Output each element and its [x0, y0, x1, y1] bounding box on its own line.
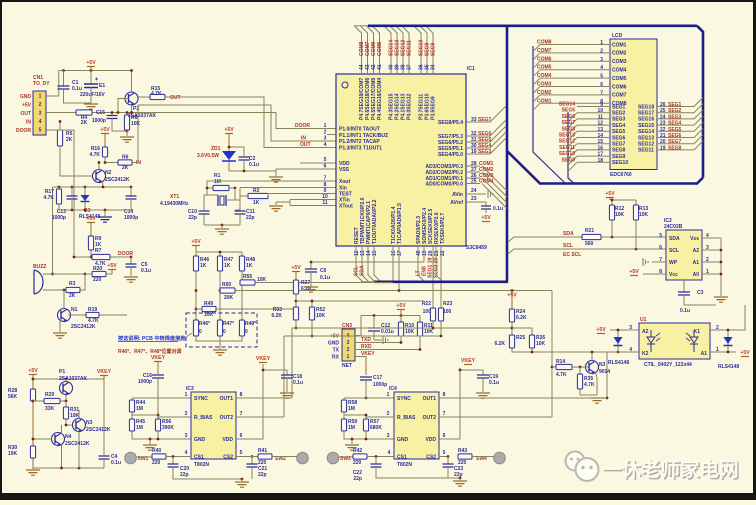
svg-text:0.1u: 0.1u [293, 380, 303, 386]
resistor R47* (0 ohm) [217, 320, 222, 336]
svg-text:SEG11: SEG11 [407, 40, 413, 56]
svg-text:4.7K: 4.7K [88, 318, 99, 324]
wire CN1 pin1 to +5V rail [46, 71, 59, 97]
net label TXD wire [355, 342, 401, 344]
resistor R55 [240, 280, 255, 285]
capacitor C3 [683, 280, 685, 292]
svg-text:K1: K1 [694, 329, 701, 335]
resistor R3 [66, 287, 80, 292]
svg-text:14: 14 [597, 133, 603, 139]
svg-text:R47*: R47* [223, 321, 234, 327]
thin lead-in top bus [354, 25, 368, 27]
svg-text:1M: 1M [136, 406, 143, 412]
svg-text:SEG2: SEG2 [668, 108, 682, 114]
resistor R31 [65, 401, 67, 407]
LCD right SEG pin rows [657, 98, 703, 107]
resistor R14 [552, 366, 556, 368]
svg-text:22p: 22p [180, 472, 189, 478]
svg-text:9014: 9014 [599, 369, 610, 375]
wire R46 col down [195, 271, 197, 320]
svg-text:R43: R43 [458, 448, 467, 454]
U1 inner LED left [647, 330, 655, 352]
svg-text:SEG6: SEG6 [668, 133, 682, 139]
resistor R26 [529, 335, 534, 348]
svg-text:C6: C6 [320, 268, 327, 274]
svg-text:3: 3 [600, 57, 603, 63]
resistor R4 [76, 110, 92, 115]
svg-text:2K: 2K [81, 120, 88, 126]
svg-text:VDD: VDD [425, 437, 436, 443]
wire lower rail y=187 [53, 186, 132, 188]
net SDA wire [508, 237, 582, 242]
svg-text:N4: N4 [65, 434, 72, 440]
svg-text:TXSEK0/P2.7: TXSEK0/P2.7 [440, 213, 446, 244]
capacitor C19 [460, 370, 483, 375]
svg-text:15: 15 [597, 139, 603, 145]
svg-text:10K: 10K [615, 212, 625, 218]
resistor R58 [341, 400, 346, 412]
pin6 VSS wire [276, 168, 336, 170]
svg-text:SEG11: SEG11 [638, 148, 654, 154]
svg-text:R46*、R47*、R48*位置对调: R46*、R47*、R48*位置对调 [118, 348, 181, 355]
svg-text:5: 5 [324, 157, 327, 163]
svg-text:U1: U1 [640, 317, 647, 323]
resistor R24 [509, 309, 514, 322]
resistor R47 [217, 256, 222, 271]
svg-text:56K: 56K [8, 394, 18, 400]
svg-text:R2: R2 [253, 188, 260, 194]
svg-text:BUZZ: BUZZ [33, 264, 46, 270]
resistor R6 [105, 162, 118, 164]
svg-text:1000p: 1000p [124, 215, 138, 221]
svg-text:R25: R25 [516, 335, 525, 341]
capacitor E1 electrolytic [90, 71, 92, 85]
svg-text:AD0/COM0/P0.0: AD0/COM0/P0.0 [425, 181, 463, 187]
svg-text:SEG3: SEG3 [612, 117, 626, 123]
wire IC3 SYNC row [132, 397, 191, 399]
wire pin22 column through R23 [440, 246, 442, 252]
ground under E1 [84, 104, 98, 109]
svg-text:22p: 22p [258, 472, 267, 478]
svg-text:R49: R49 [204, 301, 213, 307]
svg-text:COM5: COM5 [377, 41, 383, 56]
wire OUT row from CN1 pin3 (y=112.5) [46, 112, 76, 114]
svg-text:4.7K: 4.7K [43, 195, 54, 201]
wire R48 col down [241, 271, 243, 320]
capacitor C1 [63, 71, 65, 87]
wire IC4 OUT2 [439, 416, 552, 418]
svg-text:2K: 2K [122, 165, 129, 171]
wire R50 row to pin17 col [235, 290, 399, 292]
svg-text:100: 100 [443, 309, 452, 315]
svg-text:2SC2412K: 2SC2412K [86, 427, 111, 433]
svg-text:22p: 22p [454, 472, 463, 478]
resistor R46 [193, 256, 198, 271]
svg-text:4.7K: 4.7K [89, 152, 100, 158]
svg-text:SYNC: SYNC [194, 396, 208, 402]
svg-text:R7: R7 [95, 248, 102, 254]
capacitor C4 [99, 456, 110, 459]
svg-text:SEG7: SEG7 [668, 139, 682, 145]
wire U1 pin2 right riser [710, 305, 745, 330]
svg-text:SEG8: SEG8 [562, 126, 576, 132]
wire IC4 GND row [344, 431, 394, 439]
svg-text:SEG15: SEG15 [638, 123, 654, 129]
resistor R57 [363, 419, 368, 431]
wire bottom rail y=210 [59, 209, 131, 211]
wire R10 bottom to TXD [400, 336, 402, 343]
svg-text:SEG4: SEG4 [668, 121, 682, 127]
svg-text:+5V: +5V [481, 215, 491, 221]
svg-text:+5V: +5V [396, 303, 406, 309]
svg-text:R46*: R46* [199, 321, 210, 327]
svg-text:SEG10: SEG10 [559, 151, 575, 157]
thick bus left vertical [506, 25, 509, 282]
resistor R49 [202, 306, 216, 311]
capacitor C12 [373, 316, 375, 329]
svg-text:9: 9 [600, 102, 603, 108]
svg-text:COM5: COM5 [537, 65, 552, 71]
svg-text:NET: NET [342, 363, 352, 369]
svg-text:6.2K: 6.2K [516, 315, 527, 321]
svg-text:SEG9: SEG9 [612, 154, 626, 160]
svg-text:SEG6: SEG6 [562, 114, 576, 120]
net label VKEY wire [355, 357, 366, 376]
svg-text:3: 3 [324, 136, 327, 142]
wire left rail down to buzzer row [52, 187, 54, 274]
svg-text:20: 20 [660, 139, 666, 145]
svg-text:1M: 1M [214, 179, 221, 185]
resistor R48* (0 ohm) [239, 320, 244, 336]
ground under R8 [126, 130, 128, 136]
wire R22 bottom to OUT1 link row [432, 321, 434, 328]
svg-text:2: 2 [347, 347, 350, 353]
wire OUT1 link row [296, 327, 512, 329]
svg-text:2: 2 [39, 102, 42, 108]
wire R50 row extension to keypad net [399, 290, 552, 292]
wire +5V rail over CN3 [361, 315, 420, 317]
svg-text:1: 1 [39, 94, 42, 100]
svg-text:OUT1: OUT1 [423, 396, 437, 402]
wire CS1 row [166, 456, 191, 458]
wire R49 row right [216, 308, 296, 310]
svg-text:SEG11: SEG11 [559, 145, 575, 151]
svg-text:SEG1: SEG1 [668, 102, 682, 108]
svg-text:LCD: LCD [612, 33, 623, 39]
svg-text:AVin: AVin [452, 192, 463, 198]
svg-text:RLS4148: RLS4148 [608, 360, 629, 366]
ground under N5 [580, 394, 597, 396]
diode D3 RLS4148 [84, 187, 86, 210]
ground VSS [275, 169, 277, 176]
svg-text:+5V: +5V [224, 127, 234, 133]
wire R11 bottom to RXD [419, 336, 421, 350]
svg-text:SEG7: SEG7 [562, 120, 576, 126]
resistor R33 [293, 307, 298, 320]
pin23 AVref wire capacitor C7 [466, 202, 486, 206]
svg-text:1: 1 [387, 392, 390, 398]
wire riser x607 to IC4 OUT1 [606, 352, 608, 398]
IC IC2 24C02B box [666, 230, 702, 280]
svg-text:R55: R55 [243, 274, 252, 280]
svg-text:Vss: Vss [690, 236, 699, 242]
svg-text:VSS: VSS [339, 167, 350, 173]
inner collector line for COM diagonals [533, 46, 565, 183]
svg-text:按这说明: PCB 中转焊盘接地: 按这说明: PCB 中转焊盘接地 [118, 334, 186, 342]
svg-text:37: 37 [407, 64, 413, 70]
svg-text:7: 7 [240, 411, 243, 417]
svg-text:SEG4/P5.0: SEG4/P5.0 [438, 152, 463, 158]
resistor R46* (0 ohm) [193, 320, 198, 336]
thick bus corner top right [697, 26, 703, 178]
svg-text:COM3: COM3 [537, 82, 552, 88]
svg-text:SEG8/P5.4: SEG8/P5.4 [438, 120, 463, 126]
signal ground C12 [383, 336, 388, 344]
svg-text:17: 17 [597, 152, 603, 158]
svg-text:0.01u: 0.01u [381, 329, 394, 335]
svg-text:SCL: SCL [563, 243, 573, 249]
svg-text:SEG3: SEG3 [478, 149, 492, 155]
resistor R27 [293, 280, 298, 294]
resistor R41 [236, 456, 258, 458]
svg-text:1000p: 1000p [52, 215, 66, 221]
svg-text:18: 18 [597, 158, 603, 164]
svg-text:1K: 1K [253, 200, 260, 206]
wire buzzer top row [43, 273, 85, 275]
svg-text:2: 2 [387, 411, 390, 417]
resistor R56 [155, 419, 160, 431]
svg-text:19: 19 [471, 149, 477, 155]
wire pin16 column to R55 row [392, 246, 394, 283]
ground IC2 right [714, 297, 728, 302]
svg-text:5: 5 [600, 74, 603, 80]
svg-text:+5V: +5V [291, 265, 301, 271]
resistor R21 [582, 234, 601, 239]
svg-text:SEG4: SEG4 [612, 123, 626, 129]
svg-text:2: 2 [324, 130, 327, 136]
transistor N3 2SC2412K [73, 419, 86, 432]
svg-text:0.1u: 0.1u [141, 268, 151, 274]
svg-text:C3: C3 [697, 290, 704, 296]
resistor R40 [136, 456, 152, 458]
svg-text:P1.3/INT3 T1OUT1: P1.3/INT3 T1OUT1 [339, 145, 382, 151]
ground bottom rail [104, 210, 106, 216]
svg-text:T802N: T802N [194, 462, 209, 468]
wire R23 bottom to OUT2 link row [440, 321, 442, 336]
svg-text:220: 220 [258, 460, 267, 466]
pin10 XTin wire [290, 199, 336, 201]
svg-text:0.1u: 0.1u [111, 460, 121, 466]
svg-text:S3C8459: S3C8459 [466, 245, 487, 251]
svg-text:2SC2412K: 2SC2412K [65, 441, 90, 447]
svg-text:OUT: OUT [20, 111, 31, 117]
capacitor C16 [152, 375, 164, 378]
wire VKEY column down to C4 [103, 379, 105, 455]
ground IC4 left [351, 439, 353, 444]
ground under crystal [204, 224, 240, 226]
resistor R28 [30, 389, 35, 401]
net label DOOR (R7) [110, 256, 131, 258]
svg-text:+5V: +5V [86, 216, 96, 222]
svg-text:P1.2/INT2 TACAP: P1.2/INT2 TACAP [339, 139, 380, 145]
wire buzzer bottom row to R3 [43, 289, 64, 291]
svg-text:SEG6: SEG6 [612, 135, 626, 141]
svg-text:+5V: +5V [107, 263, 117, 269]
svg-text:34: 34 [431, 64, 437, 70]
svg-text:N1: N1 [71, 307, 78, 313]
svg-text:1M: 1M [136, 425, 143, 431]
svg-text:SEG7: SEG7 [478, 117, 492, 123]
svg-text:33: 33 [471, 117, 477, 123]
svg-text:TXD: TXD [361, 337, 371, 343]
IC U1 main MCU S3C8459 box [336, 74, 466, 246]
svg-text:A2: A2 [642, 329, 649, 335]
svg-text:COM7: COM7 [537, 48, 552, 54]
svg-text:4.7K: 4.7K [556, 372, 567, 378]
svg-text:10K: 10K [8, 451, 18, 457]
resistor R30 [30, 446, 35, 458]
svg-text:N3: N3 [599, 362, 606, 368]
svg-text:+5V: +5V [22, 103, 32, 109]
svg-text:1000p: 1000p [92, 118, 106, 124]
resistor R35 [579, 367, 581, 374]
node row R58 R59 [344, 414, 366, 416]
svg-text:+5V: +5V [629, 269, 639, 275]
resistor R23 [438, 308, 443, 321]
svg-text:SEG17: SEG17 [638, 111, 654, 117]
resistor R19 [68, 314, 86, 316]
transistor N5 driver [586, 361, 599, 374]
svg-text:0.1u: 0.1u [249, 162, 259, 168]
svg-text:C15: C15 [96, 110, 105, 116]
resistor R8 [126, 113, 128, 116]
svg-text:SEG16: SEG16 [638, 117, 654, 123]
transistor P2 2SA1037AK [125, 92, 138, 105]
svg-text:IC4: IC4 [389, 386, 397, 392]
capacitor C6 [310, 262, 312, 269]
svg-text:3: 3 [185, 433, 188, 439]
svg-text:RX: RX [332, 355, 340, 361]
svg-text:22p: 22p [188, 215, 197, 221]
pin2 stub [327, 134, 336, 136]
svg-text:4.7K: 4.7K [151, 91, 162, 97]
svg-text:TX: TX [333, 348, 340, 354]
svg-text:3: 3 [39, 111, 42, 117]
svg-text:220: 220 [152, 460, 161, 466]
svg-text:CS2: CS2 [223, 454, 233, 460]
svg-text:R_BIAS: R_BIAS [194, 415, 213, 421]
capacitor C2 [229, 147, 244, 156]
svg-text:24: 24 [471, 188, 477, 194]
svg-text:5: 5 [659, 233, 662, 239]
resistor R29 [32, 400, 35, 403]
pad SW1 [125, 452, 137, 464]
svg-text:+5V: +5V [28, 368, 38, 374]
wire WP to signal ground [652, 261, 666, 263]
svg-text:12: 12 [597, 121, 603, 127]
U1 inner detector right [690, 330, 698, 352]
svg-text:R14: R14 [556, 359, 565, 365]
svg-text:10K: 10K [405, 329, 415, 335]
resistor R12 [609, 205, 614, 220]
wire R24 bottom node [511, 322, 513, 335]
resistor R43 [458, 454, 472, 459]
ground under C22 C23 [459, 477, 462, 480]
pin8 Xin wire [240, 187, 336, 189]
resistor R22 [430, 308, 435, 321]
svg-text:A2: A2 [693, 248, 700, 254]
svg-text:1M: 1M [348, 406, 355, 412]
svg-text:GND: GND [397, 437, 409, 443]
svg-text:25: 25 [471, 179, 477, 185]
svg-text:R3: R3 [69, 281, 76, 287]
wire IC3 OUT1 riser [292, 328, 296, 398]
svg-text:COM2: COM2 [612, 51, 627, 57]
svg-text:6: 6 [240, 433, 243, 439]
svg-text:10K: 10K [316, 313, 326, 319]
diode D5 RLS4148 [727, 330, 729, 352]
resistor R25 [509, 335, 514, 348]
svg-text:VKEY: VKEY [461, 358, 476, 364]
svg-text:1K: 1K [246, 263, 253, 269]
svg-text:20K: 20K [224, 295, 234, 301]
svg-text:SEG1: SEG1 [612, 104, 626, 110]
svg-text:7: 7 [324, 176, 327, 182]
svg-text:1: 1 [347, 354, 350, 360]
diode D4 RLS4148 [617, 330, 619, 352]
IC U1 optocoupler box [639, 323, 710, 359]
wire ZD1 to VSS ground [229, 169, 276, 171]
svg-text:OUT: OUT [300, 142, 311, 148]
ground XTin [289, 200, 291, 206]
svg-text:2: 2 [185, 411, 188, 417]
svg-text:T1OUT0ADA0/P2.2: T1OUT0ADA0/P2.2 [372, 199, 378, 244]
svg-text:OUT2: OUT2 [423, 415, 437, 421]
svg-text:10K: 10K [424, 329, 434, 335]
svg-text:SCL: SCL [669, 248, 679, 254]
wire IN net to IC pin3 [138, 105, 336, 141]
svg-text:COM4: COM4 [479, 179, 494, 185]
wire R47 col down [219, 271, 221, 320]
svg-text:16: 16 [597, 145, 603, 151]
wire N2 emitter to lower rail [102, 182, 105, 188]
svg-text:OUT2: OUT2 [220, 415, 234, 421]
svg-text:15: 15 [372, 250, 378, 256]
svg-text:R42: R42 [353, 448, 362, 454]
svg-text:SEG8: SEG8 [612, 148, 626, 154]
resistor R9 [88, 236, 93, 250]
svg-text:VKEY: VKEY [151, 355, 166, 361]
IC1 right COM/AD wires with labels [466, 165, 480, 167]
resistor R15 [138, 96, 150, 98]
svg-text:26: 26 [660, 102, 666, 108]
svg-text:CS2: CS2 [426, 454, 436, 460]
pad SW3 [327, 452, 339, 464]
svg-text:CS1: CS1 [397, 454, 407, 460]
svg-text:0.1u: 0.1u [493, 206, 503, 212]
transistor N1 2SC2412K [58, 309, 71, 322]
svg-text:R6: R6 [122, 155, 129, 161]
capacitor C13 [71, 187, 73, 196]
wire U1 pin4 row [600, 351, 639, 353]
pin9 TEST wire [268, 194, 336, 197]
IC1 top pin wires with diagonals to bus [355, 26, 362, 74]
svg-text:SEG8: SEG8 [431, 42, 437, 56]
svg-text:P4.0SEG12: P4.0SEG12 [407, 93, 413, 120]
ground under C19 [476, 393, 490, 398]
svg-text:+5V: +5V [191, 239, 201, 245]
svg-text:CS1: CS1 [194, 454, 204, 460]
